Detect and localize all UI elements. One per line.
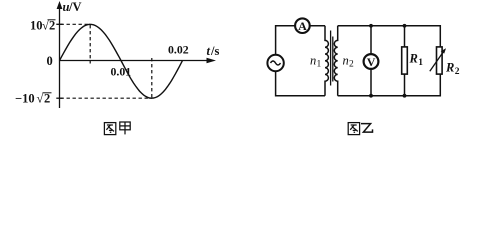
svg-text:−10: −10 [15,92,35,106]
svg-text:1: 1 [317,60,322,70]
svg-text:1: 1 [418,58,423,68]
svg-text:V: V [367,55,376,69]
svg-text:n: n [343,54,349,68]
svg-text:R: R [409,52,418,66]
svg-text:√: √ [42,19,49,33]
svg-text:n: n [310,54,316,68]
svg-text:A: A [298,19,307,33]
svg-text:0.02: 0.02 [168,43,189,57]
svg-text:0: 0 [47,54,53,68]
svg-text:2: 2 [49,19,55,33]
svg-text:t: t [207,44,211,58]
svg-text:2: 2 [44,92,50,106]
svg-text:√: √ [37,92,44,106]
svg-text:/s: /s [210,44,219,58]
svg-text:/V: /V [68,0,82,14]
svg-text:2: 2 [349,60,354,70]
svg-text:2: 2 [455,67,460,77]
svg-text:10: 10 [30,19,43,33]
svg-text:R: R [445,61,454,75]
svg-text:0.01: 0.01 [111,65,132,79]
